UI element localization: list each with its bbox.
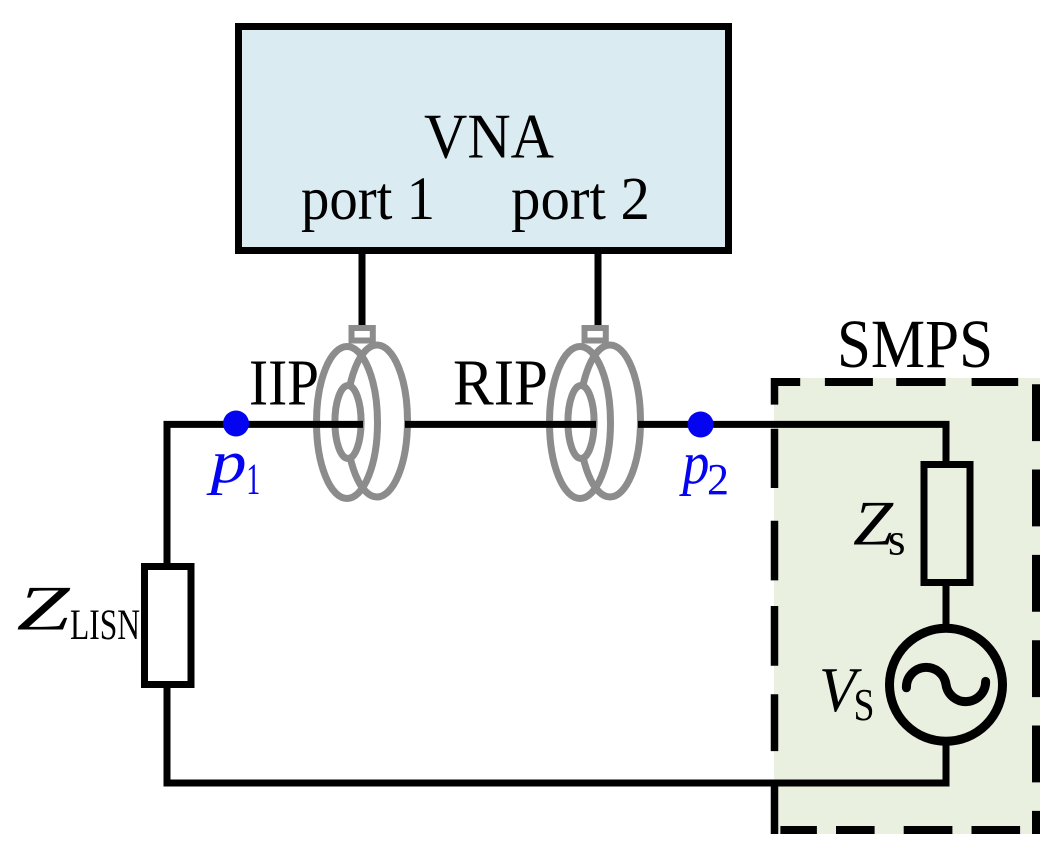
VNA instrument box [239,27,729,251]
wire left loop vertical [164,422,171,567]
wire ZLISN to bottom [164,685,171,787]
svg-text:SMPS: SMPS [837,306,993,382]
svg-text:VNA: VNA [424,100,554,171]
SMPS enclosure dashed border top [771,378,1018,386]
wire VNA port1 to probe IIP [359,250,366,332]
svg-text:LISN: LISN [70,602,140,649]
current probe IIP [317,328,408,499]
SMPS enclosure dashed border left [771,378,779,834]
svg-text:RIP: RIP [453,346,548,419]
source VS sine [906,667,985,701]
svg-text:S: S [854,680,875,730]
wire main horizontal middle segment [405,421,596,428]
node p2 dot [688,412,714,438]
wire ZS to VS [943,583,950,630]
node p1 dot [223,411,249,437]
svg-text:Z: Z [17,573,72,644]
svg-text:IIP: IIP [249,346,319,419]
svg-text:2: 2 [707,455,729,504]
wire VNA port2 to probe RIP [595,250,602,332]
SMPS enclosure dashed border right [1032,384,1040,834]
impedance ZLISN [145,567,192,685]
svg-text:s: s [888,515,906,565]
svg-text:1: 1 [246,455,260,504]
svg-text:port 2: port 2 [511,166,650,233]
SMPS enclosure fill [774,378,1040,834]
wire bottom [164,780,950,787]
source VS circle [890,628,1003,741]
current probe RIP [550,328,641,499]
SMPS enclosure dashed border bottom [780,826,1040,834]
svg-text:p: p [206,429,247,495]
wire main horizontal right segment [638,421,950,428]
wire VS to bottom [943,741,950,783]
wire SMPS down from top [943,422,950,465]
svg-text:port 1: port 1 [301,166,435,233]
svg-text:p: p [679,430,710,496]
wire main horizontal left segment [164,421,364,428]
impedance ZS [924,465,970,583]
